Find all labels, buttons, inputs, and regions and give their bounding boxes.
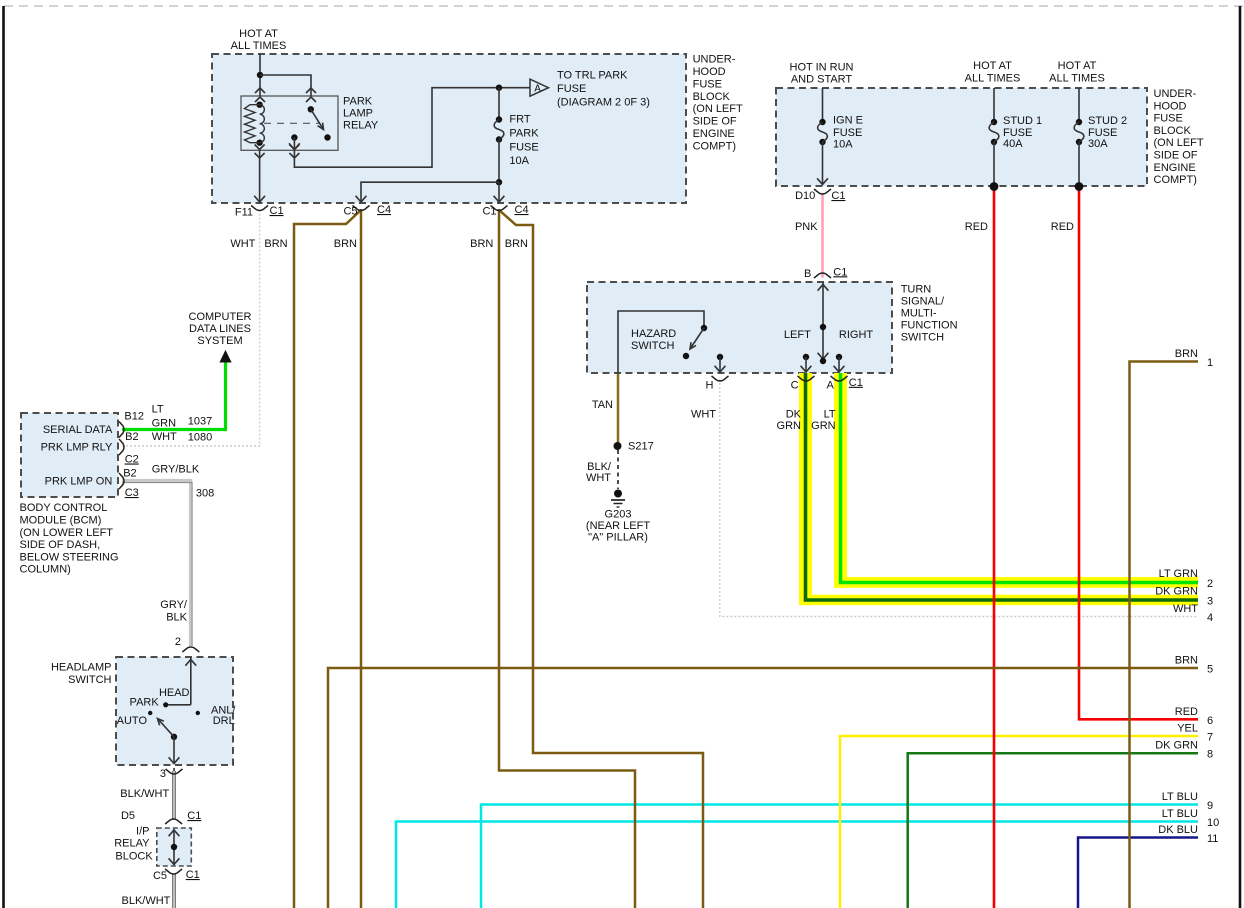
svg-text:RED: RED [1051,221,1074,233]
svg-text:HOOD: HOOD [1154,100,1187,112]
svg-text:BRN: BRN [470,238,493,250]
svg-text:308: 308 [196,488,214,500]
svg-text:GRY/: GRY/ [160,599,188,611]
svg-text:2: 2 [175,636,181,648]
svg-text:GRN: GRN [811,420,836,432]
svg-text:HOT AT: HOT AT [973,60,1012,72]
svg-text:HAZARD: HAZARD [631,328,676,340]
svg-text:RIGHT: RIGHT [839,329,874,341]
svg-text:BELOW STEERING: BELOW STEERING [20,551,119,563]
svg-text:4: 4 [1207,612,1213,624]
svg-text:ENGINE: ENGINE [693,128,735,140]
svg-text:COMPUTER: COMPUTER [189,311,252,323]
svg-text:COLUMN): COLUMN) [20,564,71,576]
svg-text:DK BLU: DK BLU [1158,824,1198,836]
svg-text:LT GRN: LT GRN [1159,568,1198,580]
svg-text:SIDE OF DASH,: SIDE OF DASH, [20,539,101,551]
svg-text:SIDE OF: SIDE OF [693,116,737,128]
svg-text:LAMP: LAMP [343,108,373,120]
svg-text:10A: 10A [509,155,529,167]
svg-text:HOT AT: HOT AT [239,28,278,40]
svg-text:BLK/WHT: BLK/WHT [120,788,169,800]
svg-text:STUD 2: STUD 2 [1088,115,1127,127]
svg-text:(ON LOWER LEFT: (ON LOWER LEFT [20,527,114,539]
svg-text:MULTI-: MULTI- [901,308,937,320]
svg-text:BLOCK: BLOCK [115,851,153,863]
svg-text:SWITCH: SWITCH [631,340,674,352]
svg-text:8: 8 [1207,749,1213,761]
svg-text:H: H [705,380,713,392]
svg-text:HOT AT: HOT AT [1058,60,1097,72]
svg-text:C1: C1 [833,266,847,278]
svg-text:5: 5 [1207,664,1213,676]
svg-text:PARK: PARK [343,96,373,108]
svg-text:SWITCH: SWITCH [901,332,944,344]
svg-text:B2: B2 [123,468,136,480]
svg-text:BRN: BRN [505,238,528,250]
svg-text:DK GRN: DK GRN [1155,586,1198,598]
svg-text:F11: F11 [235,207,253,219]
svg-text:A: A [534,84,541,95]
svg-text:1080: 1080 [188,432,212,444]
svg-text:3: 3 [160,768,166,780]
svg-text:BLOCK: BLOCK [1154,125,1192,137]
svg-text:FUSE: FUSE [509,141,538,153]
svg-text:10: 10 [1207,817,1219,829]
svg-text:1: 1 [1207,357,1213,369]
svg-text:(ON LEFT: (ON LEFT [1154,137,1204,149]
svg-text:GRN: GRN [777,420,802,432]
svg-text:B2: B2 [125,431,138,443]
svg-text:HOOD: HOOD [693,66,726,78]
svg-text:FUSE: FUSE [557,83,586,95]
svg-text:WHT: WHT [691,409,716,421]
svg-text:FUSE: FUSE [1154,113,1183,125]
svg-text:C1: C1 [831,190,845,202]
svg-text:C1: C1 [849,377,863,389]
svg-text:RELAY: RELAY [343,120,379,132]
svg-text:6: 6 [1207,715,1213,727]
svg-text:ALL TIMES: ALL TIMES [231,40,287,52]
svg-text:STUD 1: STUD 1 [1003,115,1042,127]
svg-text:GRY/BLK: GRY/BLK [152,464,200,476]
svg-text:B12: B12 [124,411,144,423]
svg-text:G203: G203 [605,509,632,521]
svg-text:BRN: BRN [264,238,287,250]
svg-text:SIGNAL/: SIGNAL/ [901,296,945,308]
svg-text:PARK: PARK [130,697,160,709]
svg-text:LT BLU: LT BLU [1162,808,1198,820]
svg-text:SERIAL DATA: SERIAL DATA [43,424,113,436]
svg-text:30A: 30A [1088,138,1108,150]
svg-text:GRN: GRN [152,418,177,430]
svg-text:C4: C4 [377,204,391,216]
svg-text:40A: 40A [1003,138,1023,150]
svg-text:LT: LT [824,409,836,421]
svg-text:(NEAR LEFT: (NEAR LEFT [586,520,650,532]
svg-text:PNK: PNK [795,221,818,233]
svg-text:D5: D5 [121,810,135,822]
svg-text:DRL: DRL [213,715,235,727]
svg-text:S217: S217 [628,441,654,453]
svg-text:C1: C1 [187,810,201,822]
svg-text:UNDER-: UNDER- [1154,88,1197,100]
svg-text:BODY CONTROL: BODY CONTROL [20,502,108,514]
svg-text:WHT: WHT [586,472,611,484]
svg-text:UNDER-: UNDER- [693,54,736,66]
svg-text:BLK/WHT: BLK/WHT [121,895,170,907]
svg-text:3: 3 [1207,596,1213,608]
svg-text:BRN: BRN [1175,348,1198,360]
svg-text:BRN: BRN [1175,655,1198,667]
svg-text:RELAY: RELAY [114,838,150,850]
svg-text:BRN: BRN [334,238,357,250]
svg-text:DK: DK [786,409,802,421]
svg-text:AND START: AND START [791,74,853,86]
svg-text:RED: RED [965,221,988,233]
svg-text:(ON LEFT: (ON LEFT [693,103,743,115]
svg-text:HOT IN RUN: HOT IN RUN [790,62,854,74]
svg-text:TO TRL PARK: TO TRL PARK [557,69,628,81]
svg-text:A: A [826,380,834,392]
svg-text:LT BLU: LT BLU [1162,791,1198,803]
svg-text:MODULE (BCM): MODULE (BCM) [20,515,102,527]
svg-text:HEAD: HEAD [159,687,190,699]
svg-text:ALL TIMES: ALL TIMES [1049,73,1105,85]
svg-text:9: 9 [1207,800,1213,812]
svg-text:TURN: TURN [901,284,932,296]
svg-text:SWITCH: SWITCH [68,674,111,686]
svg-text:I/P: I/P [136,826,149,838]
svg-text:ALL TIMES: ALL TIMES [965,73,1021,85]
svg-text:C5: C5 [153,870,167,882]
svg-text:1037: 1037 [188,416,212,428]
svg-text:7: 7 [1207,732,1213,744]
svg-text:C1: C1 [270,205,284,217]
svg-text:PRK LMP ON: PRK LMP ON [45,476,113,488]
svg-text:BLK: BLK [166,612,187,624]
svg-text:C1: C1 [482,206,496,218]
svg-text:C3: C3 [125,487,139,499]
svg-text:IGN E: IGN E [833,114,863,126]
svg-text:WHT: WHT [152,431,177,443]
svg-text:RED: RED [1175,706,1198,718]
svg-text:C5: C5 [343,206,357,218]
svg-text:FUSE: FUSE [833,127,862,139]
svg-text:YEL: YEL [1177,723,1198,735]
svg-text:2: 2 [1207,578,1213,590]
svg-text:"A" PILLAR): "A" PILLAR) [588,532,648,544]
svg-text:DATA LINES: DATA LINES [189,323,251,335]
svg-text:C2: C2 [125,454,139,466]
svg-text:D10: D10 [795,190,815,202]
svg-text:LEFT: LEFT [784,329,811,341]
svg-text:C1: C1 [186,869,200,881]
svg-text:FUNCTION: FUNCTION [901,320,958,332]
svg-text:WHT: WHT [230,238,255,250]
svg-text:ENGINE: ENGINE [1154,162,1196,174]
svg-text:PARK: PARK [509,128,539,140]
svg-text:AUTO: AUTO [117,715,148,727]
svg-text:C4: C4 [515,204,529,216]
svg-text:DK GRN: DK GRN [1155,740,1198,752]
svg-text:WHT: WHT [1173,603,1198,615]
svg-text:SIDE OF: SIDE OF [1154,150,1198,162]
svg-text:PRK LMP RLY: PRK LMP RLY [41,442,113,454]
svg-text:C: C [791,380,799,392]
svg-text:COMPT): COMPT) [1154,174,1197,186]
svg-text:B: B [804,268,811,280]
svg-text:10A: 10A [833,138,853,150]
svg-text:BLOCK: BLOCK [693,91,731,103]
svg-text:(DIAGRAM 2 0F 3): (DIAGRAM 2 0F 3) [557,97,650,109]
svg-text:FRT: FRT [509,113,530,125]
svg-text:HEADLAMP: HEADLAMP [51,662,112,674]
svg-text:LT: LT [152,404,164,416]
svg-text:TAN: TAN [592,399,613,411]
svg-text:FUSE: FUSE [693,78,722,90]
svg-text:SYSTEM: SYSTEM [197,335,242,347]
svg-text:11: 11 [1207,833,1218,845]
svg-text:COMPT): COMPT) [693,140,736,152]
